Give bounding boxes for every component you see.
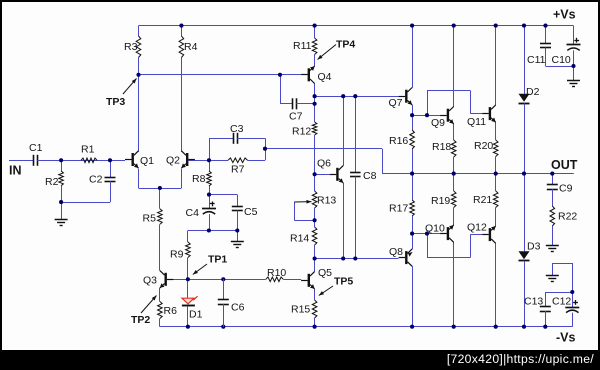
svg-text:R16: R16	[389, 135, 408, 147]
svg-text:TP1: TP1	[208, 254, 227, 266]
svg-text:C12: C12	[552, 296, 571, 308]
svg-text:TP2: TP2	[131, 314, 150, 326]
svg-text:Q7: Q7	[389, 97, 403, 109]
svg-text:Q9: Q9	[431, 117, 445, 129]
svg-text:Q11: Q11	[467, 116, 486, 128]
svg-text:R18: R18	[432, 141, 451, 153]
svg-text:Q2: Q2	[166, 155, 180, 167]
svg-text:Q10: Q10	[425, 223, 445, 235]
svg-text:R6: R6	[164, 305, 178, 317]
svg-text:R13: R13	[317, 195, 336, 207]
svg-text:Q5: Q5	[318, 267, 332, 279]
svg-text:R1: R1	[81, 144, 95, 156]
svg-text:C9: C9	[559, 183, 573, 195]
svg-text:D2: D2	[526, 86, 540, 98]
svg-text:R15: R15	[291, 304, 310, 316]
svg-text:R19: R19	[431, 195, 450, 207]
svg-text:IN: IN	[9, 164, 22, 178]
svg-text:C6: C6	[231, 302, 245, 314]
svg-text:R22: R22	[558, 211, 577, 223]
svg-text:Q3: Q3	[143, 275, 157, 287]
svg-text:TP3: TP3	[106, 96, 125, 108]
svg-text:Q12: Q12	[467, 222, 487, 234]
svg-text:Q6: Q6	[317, 158, 331, 170]
svg-text:TP4: TP4	[336, 39, 355, 51]
svg-text:-Vs: -Vs	[556, 331, 576, 345]
svg-text:OUT: OUT	[551, 158, 578, 172]
svg-text:TP5: TP5	[334, 276, 353, 288]
svg-text:R20: R20	[474, 140, 493, 152]
svg-text:R21: R21	[473, 194, 492, 206]
svg-text:D3: D3	[527, 241, 541, 253]
svg-text:R4: R4	[184, 41, 198, 53]
svg-text:C2: C2	[89, 174, 103, 186]
svg-text:C10: C10	[552, 54, 571, 66]
svg-text:R5: R5	[143, 213, 157, 225]
svg-text:C4: C4	[186, 207, 200, 219]
svg-text:C7: C7	[289, 111, 303, 123]
svg-text:R3: R3	[124, 41, 138, 53]
svg-text:R7: R7	[231, 164, 245, 176]
svg-text:C13: C13	[524, 296, 543, 308]
svg-text:C11: C11	[527, 54, 546, 66]
svg-text:Q8: Q8	[389, 246, 403, 258]
svg-text:C8: C8	[363, 170, 377, 182]
svg-text:R2: R2	[45, 176, 59, 188]
svg-text:R12: R12	[292, 126, 311, 138]
svg-text:C1: C1	[29, 142, 43, 154]
svg-text:R17: R17	[389, 203, 408, 215]
svg-text:D1: D1	[189, 309, 203, 321]
svg-text:Q1: Q1	[140, 155, 154, 167]
svg-text:C5: C5	[244, 206, 258, 218]
svg-text:C3: C3	[230, 123, 244, 135]
svg-text:R10: R10	[267, 267, 286, 279]
svg-text:R9: R9	[170, 249, 184, 261]
svg-text:R11: R11	[293, 40, 312, 52]
svg-text:R14: R14	[290, 233, 309, 245]
svg-text:R8: R8	[192, 173, 206, 185]
svg-text:Q4: Q4	[318, 71, 332, 83]
svg-text:+Vs: +Vs	[553, 8, 576, 22]
